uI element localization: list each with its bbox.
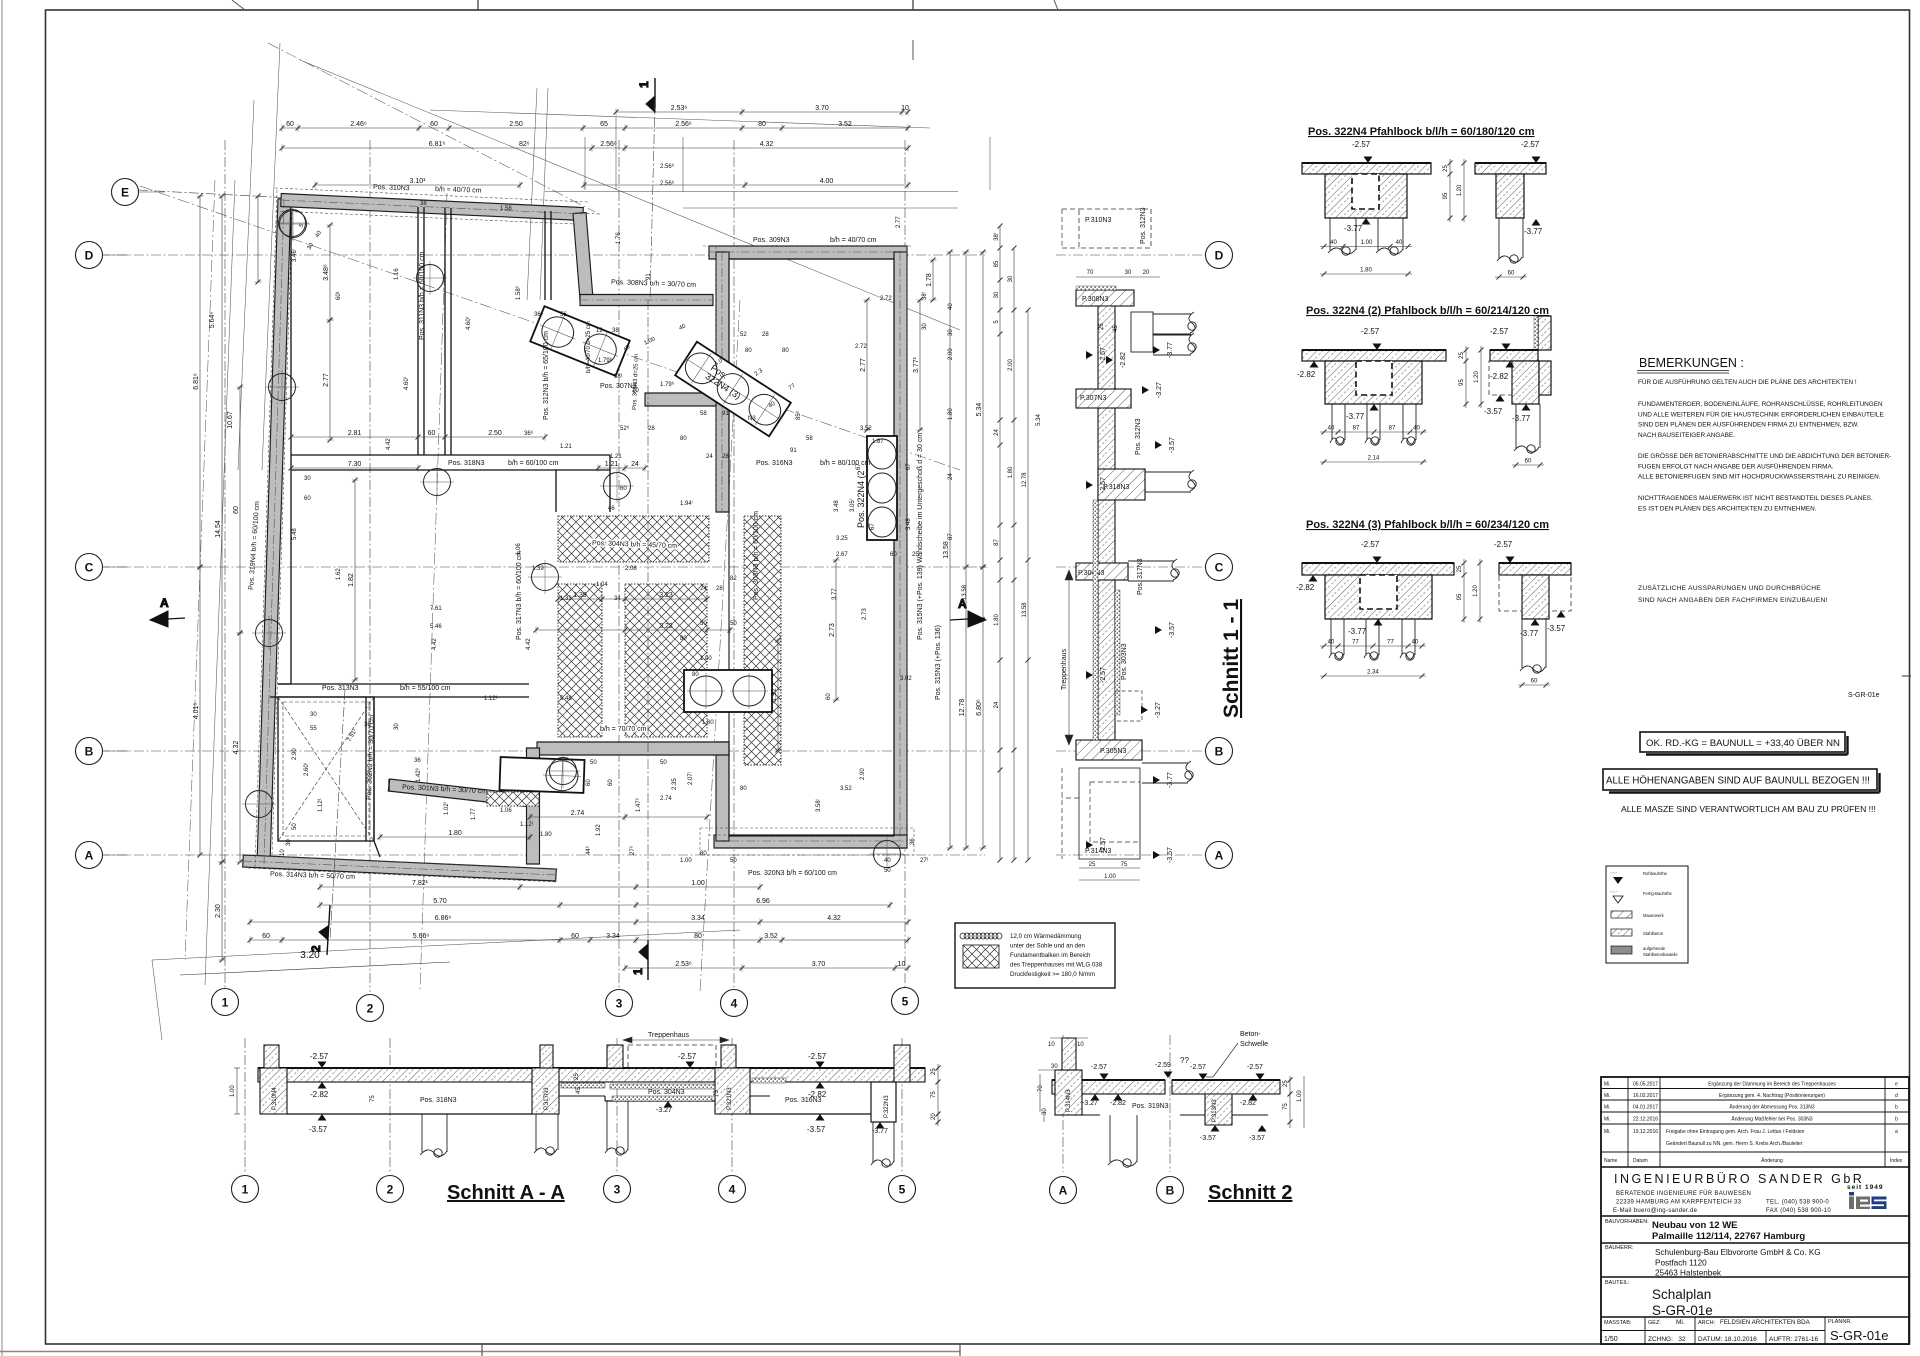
svg-text:Pos. 317N3: Pos. 317N3: [1137, 558, 1144, 595]
svg-text:-2.57: -2.57: [1100, 347, 1107, 363]
svg-text:-2.57: -2.57: [1100, 667, 1107, 683]
svg-text:7.61: 7.61: [430, 606, 442, 612]
svg-text:4.32: 4.32: [760, 141, 774, 148]
svg-text:5.48: 5.48: [292, 528, 298, 540]
svg-text:-3.57: -3.57: [1249, 1135, 1265, 1142]
svg-text:1.06: 1.06: [500, 808, 512, 814]
svg-text:-3.27: -3.27: [1082, 1100, 1098, 1107]
svg-text:25: 25: [1283, 1080, 1289, 1087]
section A-A arrows left/right: [150, 596, 986, 627]
svg-text:GEZ:: GEZ:: [1648, 1320, 1661, 1326]
section mark 1 (top): [637, 78, 655, 112]
svg-text:-2.82: -2.82: [310, 1090, 329, 1099]
svg-text:-2.82: -2.82: [1490, 372, 1509, 381]
svg-text:60: 60: [1525, 459, 1532, 465]
svg-text:Pos. 315N3 (+Pos. 136): Pos. 315N3 (+Pos. 136): [935, 625, 942, 700]
svg-text:87: 87: [1353, 426, 1360, 432]
bottom dashed part P.314N3: [1079, 768, 1140, 859]
svg-text:28: 28: [762, 332, 769, 338]
svg-text:45: 45: [576, 1087, 582, 1094]
svg-text:65: 65: [600, 121, 608, 128]
svg-text:36: 36: [414, 758, 421, 764]
svg-text:3.70: 3.70: [815, 105, 829, 112]
svg-text:-2.82: -2.82: [1296, 583, 1315, 592]
svg-text:-.-.-: -.-.-: [1610, 870, 1617, 875]
svg-text:1.80: 1.80: [702, 720, 714, 726]
svg-text:12,0 cm Wärmedämmung: 12,0 cm Wärmedämmung: [1010, 933, 1082, 940]
svg-text:13.58: 13.58: [1022, 602, 1028, 618]
svg-text:36: 36: [910, 838, 916, 845]
svg-text:Pos. 315N3 (+Pos. 139) Wandsc: Pos. 315N3 (+Pos. 139) Wandscheibe im Un…: [917, 433, 924, 640]
svg-text:Schnitt A - A: Schnitt A - A: [447, 1182, 565, 1204]
site boundary diagonal lines: [140, 43, 960, 1040]
svg-text:3.48⁶: 3.48⁶: [323, 264, 330, 281]
svg-text:Fertig-Bauhöhe: Fertig-Bauhöhe: [1643, 891, 1673, 896]
svg-text:67: 67: [906, 463, 912, 470]
svg-text:30: 30: [1008, 275, 1014, 282]
dim 70 30 20 under D: [1076, 276, 1160, 278]
svg-text:25: 25: [574, 1073, 580, 1080]
top dimension chains: [614, 109, 911, 116]
wall right edge of section A: [573, 213, 593, 300]
svg-text:Pos. 318N3: Pos. 318N3: [420, 1097, 457, 1104]
svg-text:2.72: 2.72: [880, 296, 892, 302]
svg-text:85⁶: 85⁶: [795, 410, 802, 420]
svg-text:1.21: 1.21: [560, 444, 572, 450]
beam bottom left bay: [287, 1113, 533, 1115]
svg-text:2.72: 2.72: [855, 344, 867, 350]
svg-text:80: 80: [694, 933, 702, 940]
svg-text:aufgehende: aufgehende: [1643, 946, 1666, 951]
svg-text:3.10¹: 3.10¹: [410, 178, 427, 185]
svg-text:1.20: 1.20: [1473, 585, 1479, 597]
svg-text:-3.77: -3.77: [1348, 627, 1367, 636]
svg-text:82: 82: [730, 576, 737, 582]
svg-text:INGENIEURBÜRO SANDER GbR: INGENIEURBÜRO SANDER GbR: [1614, 1172, 1864, 1186]
svg-text:36⁶: 36⁶: [524, 430, 534, 437]
svg-text:75: 75: [370, 1095, 376, 1102]
svg-text:Pos. 312N3: Pos. 312N3: [1135, 418, 1142, 455]
svg-text:Datum: Datum: [1633, 1158, 1648, 1164]
wall Pos. 301N3: [388, 779, 532, 807]
svg-text:A: A: [85, 849, 94, 863]
svg-text:24: 24: [631, 461, 639, 468]
svg-text:??: ??: [1180, 1056, 1189, 1065]
left end column P.310N4: [260, 1068, 287, 1114]
slab bands schnitt 2: [1052, 1080, 1165, 1094]
svg-text:2.90: 2.90: [292, 748, 298, 760]
detail 1 dims: [1320, 244, 1412, 249]
svg-text:7.82¹: 7.82¹: [412, 880, 429, 887]
svg-text:1.39: 1.39: [573, 592, 587, 599]
svg-text:58: 58: [700, 411, 707, 417]
svg-text:3.22: 3.22: [659, 623, 673, 630]
svg-text:95: 95: [1459, 379, 1465, 386]
box OK. RD.-KG = BAUNULL: [1640, 732, 1845, 752]
svg-text:60: 60: [304, 496, 311, 502]
svg-text:Schalplan: Schalplan: [1652, 1287, 1711, 1302]
svg-text:AUFTR: 2761-16: AUFTR: 2761-16: [1769, 1336, 1819, 1343]
svg-text:1.00: 1.00: [230, 1085, 236, 1097]
svg-text:-2.59: -2.59: [1155, 1062, 1171, 1069]
svg-text:-3.57: -3.57: [1484, 407, 1503, 416]
svg-text:Pos. 319N3: Pos. 319N3: [1132, 1103, 1169, 1110]
svg-text:e: e: [1895, 1082, 1898, 1088]
detail 2 level marks: [1373, 344, 1382, 351]
box ALLE HOEHENANGABEN: [1603, 769, 1877, 790]
interior wall lines: [270, 207, 894, 857]
svg-text:10: 10: [1048, 1042, 1055, 1048]
svg-text:A: A: [160, 596, 169, 610]
svg-text:-3.27: -3.27: [656, 1107, 672, 1114]
svg-text:Schwelle: Schwelle: [1240, 1041, 1268, 1048]
svg-text:1.76: 1.76: [616, 232, 622, 244]
svg-text:2.90: 2.90: [860, 768, 866, 780]
grid bubble C (right): [1206, 554, 1233, 581]
svg-text:1.79⁶: 1.79⁶: [598, 357, 613, 364]
grid bubbles 1-5 (section A-A): [232, 1176, 259, 1203]
svg-text:05.05.2017: 05.05.2017: [1633, 1082, 1658, 1088]
grid bubble D: [76, 242, 103, 269]
svg-text:50: 50: [292, 823, 298, 830]
svg-text:2.73: 2.73: [829, 623, 836, 637]
svg-text:S-GR-01e: S-GR-01e: [1652, 1303, 1713, 1318]
svg-text:P.310N3: P.310N3: [1085, 217, 1111, 224]
svg-text:Pos. 304N3: Pos. 304N3: [648, 1089, 685, 1096]
svg-text:FUNDAMENTERDER, BODENEINLÄUFE,: FUNDAMENTERDER, BODENEINLÄUFE, ROHRANSCH…: [1638, 400, 1883, 408]
stair columns above slab + dashed: [607, 1045, 623, 1068]
svg-text:P.314N3: P.314N3: [1085, 848, 1111, 855]
svg-text:3.52: 3.52: [860, 426, 872, 432]
svg-text:3.34: 3.34: [606, 933, 620, 940]
pile circles on walls: [242, 206, 904, 871]
section mark 1 (bottom): [631, 940, 648, 980]
svg-text:P.322N3: P.322N3: [884, 1095, 890, 1118]
svg-text:Mi.: Mi.: [1604, 1117, 1611, 1123]
svg-text:Änderung: Änderung: [1761, 1157, 1783, 1164]
svg-text:b/h = 40/70 cm: b/h = 40/70 cm: [830, 237, 877, 244]
slab band section A-A: [258, 1068, 925, 1082]
svg-text:1.94ⁱ: 1.94ⁱ: [680, 499, 693, 507]
svg-text:Ergänzung der Dämmung im Berei: Ergänzung der Dämmung im Bereich des Tre…: [1708, 1082, 1836, 1088]
svg-text:Pos. 310N3: Pos. 310N3: [373, 184, 410, 192]
svg-text:1.04: 1.04: [596, 582, 608, 588]
svg-text:25: 25: [931, 1068, 937, 1075]
svg-text:2.81: 2.81: [348, 430, 362, 437]
grid dash-dot verticals 1-5 (section A-A): [244, 1038, 246, 1174]
svg-text:30: 30: [948, 329, 954, 336]
svg-text:45: 45: [1113, 325, 1119, 332]
svg-text:OK. RD.-KG = BAUNULL = +33,40: OK. RD.-KG = BAUNULL = +33,40 ÜBER NN: [1646, 738, 1840, 749]
detail 1 pile cap block: [1325, 174, 1407, 218]
svg-text:5.46: 5.46: [430, 624, 442, 630]
svg-text:b/h = 80/100 cm: b/h = 80/100 cm: [820, 460, 871, 467]
svg-text:P.321N3: P.321N3: [727, 1087, 733, 1110]
svg-text:-3.77: -3.77: [1167, 772, 1174, 788]
svg-text:6.80⁶: 6.80⁶: [976, 699, 983, 716]
svg-text:25: 25: [1457, 565, 1463, 572]
svg-text:25463 Halstenbek: 25463 Halstenbek: [1655, 1269, 1722, 1278]
svg-text:Pos. 303N3: Pos. 303N3: [1121, 643, 1128, 680]
small insulation L at bottom-left pile cap: [487, 792, 539, 806]
Treppenhaus label vertical with arrow: [1065, 570, 1073, 745]
svg-text:1.00: 1.00: [1361, 240, 1373, 246]
grid bubble B: [76, 738, 103, 765]
svg-text:40: 40: [1396, 240, 1403, 246]
svg-text:1.78: 1.78: [926, 273, 933, 287]
svg-text:Schnitt 1 - 1: Schnitt 1 - 1: [1220, 599, 1243, 718]
svg-text:2.77: 2.77: [323, 373, 330, 387]
grid axes dash-dot lines: [100, 140, 985, 992]
svg-text:1.87: 1.87: [872, 439, 884, 445]
svg-text:ALLE MASZE SIND VERANTWORTLICH: ALLE MASZE SIND VERANTWORTLICH AM BAU ZU…: [1621, 804, 1876, 814]
svg-text:1.00: 1.00: [1297, 1090, 1303, 1102]
grid bubble 5: [892, 988, 919, 1015]
svg-text:3: 3: [616, 997, 623, 1011]
svg-text:-2.57: -2.57: [678, 1052, 697, 1061]
svg-text:-2.57: -2.57: [1521, 140, 1540, 149]
detail 3 level marks: [1373, 557, 1382, 564]
svg-text:20: 20: [1143, 270, 1150, 276]
svg-text:80: 80: [692, 672, 699, 678]
svg-text:82⁶: 82⁶: [519, 141, 530, 148]
IBS logo: [1849, 1192, 1887, 1209]
svg-text:2.46⁶: 2.46⁶: [350, 121, 367, 128]
svg-text:Beton-: Beton-: [1240, 1031, 1261, 1038]
svg-text:b/h = 55/100 cm: b/h = 55/100 cm: [400, 685, 451, 692]
svg-text:Stahlbeton: Stahlbeton: [1643, 931, 1664, 936]
svg-text:-3.77: -3.77: [1512, 414, 1531, 423]
svg-text:75: 75: [1121, 862, 1128, 868]
svg-text:P.305N3: P.305N3: [1100, 748, 1126, 755]
svg-text:BAUHERR:: BAUHERR:: [1605, 1245, 1634, 1251]
svg-text:Pos. 322N4 (2: Pos. 322N4 (2: [856, 470, 866, 528]
svg-text:Ergänzung gem. 4. Nachtrag (: Ergänzung gem. 4. Nachtrag (Positionieru…: [1719, 1093, 1825, 1099]
svg-text:1.00: 1.00: [1104, 874, 1116, 880]
svg-text:2.50: 2.50: [488, 430, 502, 437]
svg-text:5.70: 5.70: [433, 898, 447, 905]
svg-text:2.74: 2.74: [660, 796, 672, 802]
svg-text:E: E: [121, 186, 129, 200]
svg-text:2.35: 2.35: [672, 778, 678, 790]
svg-text:1.80: 1.80: [1008, 466, 1014, 478]
detail 2 piles: [1330, 404, 1345, 445]
svg-text:2.53⁶: 2.53⁶: [671, 105, 688, 112]
svg-text:C: C: [1215, 561, 1224, 575]
svg-text:80: 80: [700, 851, 707, 857]
wall Pos. 308N3 (link band): [580, 295, 713, 306]
svg-text:b: b: [1895, 1105, 1898, 1111]
svg-text:P.314N3: P.314N3: [1066, 1089, 1072, 1112]
svg-text:-3.27: -3.27: [1156, 382, 1163, 398]
pile cylinders (section): [1131, 312, 1153, 352]
svg-text:d: d: [1895, 1093, 1898, 1099]
P.307N3 bar: [1076, 389, 1131, 408]
svg-text:14.54: 14.54: [215, 520, 222, 538]
grid bubble A (right): [1206, 842, 1233, 869]
svg-text:NACH BAUSEITEIGER ANGABE.: NACH BAUSEITEIGER ANGABE.: [1638, 432, 1735, 439]
svg-text:FELDSIEN ARCHITEKTEN BDA: FELDSIEN ARCHITEKTEN BDA: [1720, 1319, 1811, 1326]
svg-text:3.46ⁱ: 3.46ⁱ: [290, 249, 298, 262]
svg-text:2.60ⁱ: 2.60ⁱ: [302, 763, 310, 776]
svg-text:1.00: 1.00: [700, 656, 712, 662]
grid bubble C: [76, 554, 103, 581]
svg-text:Schnitt 2: Schnitt 2: [1208, 1182, 1292, 1204]
svg-text:b/h = 70/70 cm: b/h = 70/70 cm: [600, 726, 647, 733]
right T footing P.313N3: [1205, 1094, 1232, 1125]
svg-text:5.34: 5.34: [1036, 414, 1042, 426]
svg-text:24: 24: [994, 701, 1000, 708]
svg-text:58: 58: [806, 436, 813, 442]
svg-text:3: 3: [614, 1183, 621, 1197]
svg-text:1.82: 1.82: [348, 573, 355, 587]
svg-text:40: 40: [1412, 640, 1419, 646]
svg-text:5: 5: [902, 995, 909, 1009]
svg-text:-3.57: -3.57: [1547, 624, 1566, 633]
svg-text:-2.57: -2.57: [1361, 327, 1380, 336]
svg-text:24: 24: [700, 586, 707, 592]
svg-text:Stahlbetonbauteile: Stahlbetonbauteile: [1643, 952, 1678, 957]
svg-text:Pos. 311N3 b/h = 60/100 cm: Pos. 311N3 b/h = 60/100 cm: [419, 251, 426, 340]
svg-text:ES IST DEN PLÄNEN DES ARCHITEK: ES IST DEN PLÄNEN DES ARCHITEKTEN ZU ENT…: [1638, 504, 1817, 512]
svg-text:60: 60: [1508, 271, 1515, 277]
svg-text:Schulenburg-Bau Elbvororte Gmb: Schulenburg-Bau Elbvororte GmbH & Co. KG: [1655, 1248, 1821, 1257]
svg-text:67: 67: [856, 463, 862, 470]
right bay beam: [750, 1113, 871, 1115]
svg-text:4.32: 4.32: [827, 915, 841, 922]
svg-text:5.34: 5.34: [976, 403, 983, 417]
svg-text:10: 10: [898, 961, 906, 968]
level marks schnitt 1-1: [1086, 347, 1107, 363]
svg-text:50: 50: [730, 858, 737, 864]
svg-text:1.42⁶: 1.42⁶: [415, 767, 422, 782]
svg-text:b/h = 60/100 cm: b/h = 60/100 cm: [508, 460, 559, 467]
svg-text:Mi.: Mi.: [1604, 1093, 1611, 1099]
svg-text:BEMERKUNGEN :: BEMERKUNGEN :: [1639, 356, 1744, 370]
svg-text:-3.57: -3.57: [1169, 622, 1176, 638]
svg-text:1.80: 1.80: [1360, 268, 1372, 274]
section mark 2 (vertical line through shaft): [330, 690, 345, 940]
svg-text:Mi.: Mi.: [1604, 1105, 1611, 1111]
svg-text:-2.57: -2.57: [310, 1052, 329, 1061]
grid bubble 3: [606, 990, 633, 1017]
svg-text:-3.77: -3.77: [1520, 629, 1539, 638]
svg-text:Neubau von 12 WE: Neubau von 12 WE: [1652, 1220, 1738, 1231]
svg-text:44⁶: 44⁶: [585, 845, 592, 855]
svg-text:38¹: 38¹: [614, 374, 623, 380]
svg-text:5: 5: [899, 1183, 906, 1197]
beam middle + pile: [1108, 1115, 1137, 1167]
svg-text:4.00: 4.00: [820, 178, 834, 185]
svg-text:P.310N4: P.310N4: [272, 1087, 278, 1110]
grid bubble B (right): [1206, 738, 1233, 765]
svg-text:A: A: [1215, 849, 1224, 863]
svg-text:40: 40: [1328, 640, 1335, 646]
svg-text:26: 26: [1099, 323, 1105, 330]
svg-text:30: 30: [922, 323, 928, 330]
svg-text:1.62: 1.62: [336, 568, 342, 580]
svg-text:-2.57: -2.57: [1100, 837, 1107, 853]
svg-text:Pos. 322N4 (3) Pfahlbock b/l/h: Pos. 322N4 (3) Pfahlbock b/l/h = 60/234/…: [1306, 519, 1549, 531]
svg-text:40: 40: [1413, 426, 1420, 432]
svg-text:38: 38: [420, 201, 427, 207]
svg-text:-3.77: -3.77: [1344, 224, 1363, 233]
svg-text:ALLE BETONIERFUGEN SIND MIT HO: ALLE BETONIERFUGEN SIND MIT HOCHDRUCKWAS…: [1638, 474, 1881, 481]
svg-text:22339 HAMBURG AM KARPFENTEICH: 22339 HAMBURG AM KARPFENTEICH 33: [1616, 1200, 1742, 1206]
svg-text:1.80: 1.80: [448, 830, 462, 837]
svg-text:77: 77: [1387, 640, 1394, 646]
svg-text:S-GR-01e: S-GR-01e: [1830, 1328, 1889, 1343]
svg-text:80: 80: [782, 348, 789, 354]
svg-text:des Treppenhauses mit WLG 038: des Treppenhauses mit WLG 038: [1010, 962, 1103, 969]
svg-text:3.52: 3.52: [838, 121, 852, 128]
level marks schnitt 2: [1100, 1074, 1109, 1081]
detail 1 level marks: [1364, 157, 1373, 164]
svg-text:-3.57: -3.57: [1167, 847, 1174, 863]
svg-text:12.78: 12.78: [959, 699, 966, 717]
svg-text:2.34: 2.34: [1367, 670, 1379, 676]
svg-text:4.60ⁱ: 4.60ⁱ: [464, 317, 472, 330]
svg-text:a: a: [1895, 1129, 1898, 1135]
BAUVORHABEN: [1601, 1242, 1909, 1244]
svg-text:1.21: 1.21: [610, 454, 622, 460]
svg-text:56: 56: [560, 312, 567, 318]
internal dimension lines: [289, 434, 548, 441]
svg-text:3.25: 3.25: [836, 536, 848, 542]
insulation strip H4 (right of stairwell): [744, 516, 781, 765]
svg-text:Rohbauhöhe: Rohbauhöhe: [1643, 871, 1668, 876]
svg-text:24: 24: [948, 473, 954, 480]
wall Pos. 309N3 (top wall building B): [709, 246, 907, 259]
svg-text:3.77: 3.77: [832, 588, 838, 600]
svg-text:-3.77: -3.77: [1524, 227, 1543, 236]
svg-text:Treppenhaus: Treppenhaus: [648, 1032, 689, 1039]
dashed recess in stair wall: [1115, 691, 1142, 721]
svg-text:4: 4: [731, 997, 738, 1011]
grid lines to D C B A bubbles: [1056, 254, 1205, 256]
svg-text:NICHTTRAGENDES MAUERWERK IST N: NICHTTRAGENDES MAUERWERK IST NICHT BESTA…: [1638, 495, 1873, 502]
wall bottom band of stairwell: [537, 742, 729, 755]
svg-text:1.77: 1.77: [471, 808, 477, 820]
bottom dimension chains: [318, 884, 763, 891]
svg-text:-3.77: -3.77: [1167, 342, 1174, 358]
svg-text:1.79⁶: 1.79⁶: [660, 381, 675, 388]
svg-text:60: 60: [890, 552, 897, 558]
detail 2 dims: [1320, 430, 1427, 435]
svg-text:3.02: 3.02: [900, 676, 912, 682]
svg-text:-2.57: -2.57: [1494, 540, 1513, 549]
svg-text:28: 28: [716, 586, 723, 592]
svg-text:30: 30: [994, 291, 1000, 298]
svg-text:-3.57: -3.57: [309, 1125, 328, 1134]
svg-text:FÜR DIE AUSFÜHRUNG GELTEN AUCH: FÜR DIE AUSFÜHRUNG GELTEN AUCH DIE PLÄNE…: [1638, 378, 1857, 386]
svg-text:unter der Sohle und an den: unter der Sohle und an den: [1010, 943, 1086, 950]
grid bubble 1: [212, 989, 239, 1016]
svg-text:D: D: [85, 249, 94, 263]
svg-text:-2.82: -2.82: [1297, 370, 1316, 379]
svg-text:b/h=40/70 d=25 cm: b/h=40/70 d=25 cm: [586, 321, 592, 373]
svg-text:80: 80: [740, 786, 747, 792]
svg-text:7.30: 7.30: [348, 461, 362, 468]
svg-text:10: 10: [901, 105, 909, 112]
svg-text:ZCHNG: 32: ZCHNG: 32: [1648, 1336, 1686, 1343]
svg-text:80: 80: [758, 121, 766, 128]
svg-text:-2.82: -2.82: [808, 1090, 827, 1099]
svg-text:30: 30: [286, 839, 292, 846]
svg-text:2.74: 2.74: [571, 810, 585, 817]
svg-text:25: 25: [912, 552, 919, 558]
svg-text:Pos. 303N3 b/h = 60/100 cm: Pos. 303N3 b/h = 60/100 cm: [753, 511, 760, 600]
